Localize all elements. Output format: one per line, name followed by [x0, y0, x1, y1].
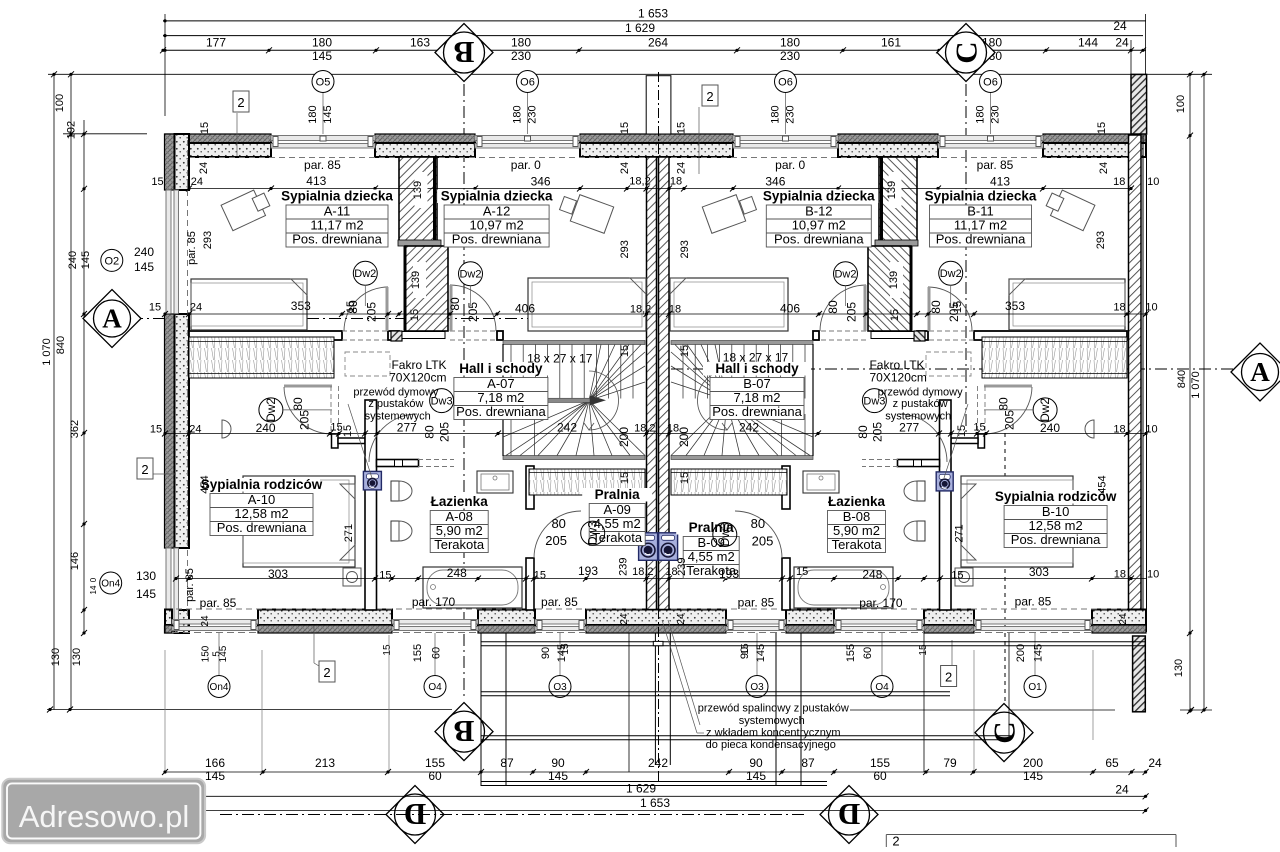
svg-text:10: 10: [1147, 569, 1159, 581]
bathroom north wall + door Dw3: [377, 460, 419, 467]
svg-text:24: 24: [1148, 756, 1162, 770]
right exterior wall: [1129, 135, 1142, 632]
svg-text:155: 155: [845, 644, 857, 662]
svg-text:Pos. drewniana: Pos. drewniana: [456, 404, 546, 419]
svg-text:100: 100: [54, 94, 66, 112]
svg-text:Terakota: Terakota: [832, 537, 883, 552]
svg-text:15: 15: [619, 122, 631, 134]
washer+dryer pair center (blue): [639, 533, 658, 561]
bed A-10: [243, 476, 355, 567]
svg-text:Dw2: Dw2: [940, 268, 962, 280]
section marker A left: [83, 290, 141, 348]
chimney duct wall upper: [399, 157, 437, 241]
svg-text:205: 205: [466, 302, 480, 322]
terrace vertical edges: [480, 633, 482, 786]
svg-text:293: 293: [619, 240, 631, 258]
bottom window markers: [218, 633, 220, 675]
desk+chair A-11: [221, 187, 273, 231]
svg-text:277: 277: [397, 421, 417, 435]
svg-text:242: 242: [739, 421, 759, 435]
svg-text:240: 240: [67, 251, 79, 269]
svg-text:15: 15: [889, 309, 901, 321]
svg-text:87: 87: [500, 756, 514, 770]
room A-12 label: [437, 190, 556, 204]
svg-text:24: 24: [200, 615, 211, 627]
svg-text:205: 205: [545, 533, 567, 548]
svg-text:15: 15: [330, 422, 342, 434]
svg-text:80: 80: [346, 300, 360, 314]
svg-text:406: 406: [780, 302, 800, 316]
svg-text:145: 145: [548, 769, 568, 783]
svg-text:15: 15: [951, 570, 963, 582]
chimney leader bottom: [662, 620, 697, 733]
svg-text:166: 166: [205, 756, 225, 770]
svg-text:5,90 m2: 5,90 m2: [436, 523, 483, 538]
svg-text:230: 230: [990, 105, 1002, 123]
svg-text:70X120cm: 70X120cm: [389, 371, 446, 385]
svg-text:Pos. drewniana: Pos. drewniana: [452, 232, 542, 247]
svg-text:B: B: [454, 714, 475, 749]
svg-text:145: 145: [322, 105, 334, 123]
svg-text:Sypialnia dziecka: Sypialnia dziecka: [441, 189, 553, 204]
section marker C top: [937, 24, 995, 82]
svg-text:145: 145: [80, 251, 92, 269]
svg-text:Pos. drewniana: Pos. drewniana: [217, 520, 307, 535]
svg-text:155: 155: [425, 756, 445, 770]
svg-text:15: 15: [379, 570, 391, 582]
svg-text:24: 24: [189, 424, 201, 436]
svg-text:145: 145: [134, 260, 154, 274]
svg-text:18: 18: [1113, 176, 1125, 188]
svg-text:406: 406: [515, 302, 535, 316]
section line B: [463, 62, 465, 700]
svg-text:Sypialnia dziecka: Sypialnia dziecka: [281, 189, 393, 204]
svg-text:145: 145: [556, 644, 568, 662]
svg-text:On4: On4: [101, 579, 120, 590]
svg-text:4,55 m2: 4,55 m2: [594, 516, 641, 531]
svg-text:15: 15: [973, 422, 985, 434]
svg-text:10: 10: [1145, 424, 1157, 436]
window (bottom wall): [172, 620, 258, 625]
svg-text:11,17 m2: 11,17 m2: [954, 218, 1007, 233]
bottom overall dims: [205, 795, 1146, 797]
svg-text:Dw2: Dw2: [459, 269, 481, 281]
svg-text:80: 80: [423, 425, 437, 439]
svg-text:230: 230: [780, 49, 800, 63]
svg-text:systemowych: systemowych: [885, 411, 951, 423]
window (bottom wall): [726, 620, 786, 625]
svg-text:80: 80: [929, 300, 943, 314]
svg-text:par. 85: par. 85: [977, 158, 1014, 172]
svg-text:z pustaków: z pustaków: [368, 398, 423, 410]
svg-text:180: 180: [770, 105, 782, 123]
svg-text:100: 100: [1175, 95, 1187, 113]
svg-text:C: C: [987, 721, 1022, 743]
left dimension chain: [53, 74, 55, 709]
night table A-10: [222, 420, 231, 438]
svg-text:O6: O6: [983, 76, 998, 88]
svg-text:24: 24: [191, 176, 203, 188]
svg-text:2: 2: [706, 89, 713, 104]
knee wall dashed line inside left wall: [187, 140, 189, 630]
Dw2 door markers: [353, 261, 377, 285]
svg-text:145: 145: [1023, 769, 1043, 783]
svg-text:12,58 m2: 12,58 m2: [1028, 518, 1082, 533]
svg-text:145: 145: [218, 645, 229, 662]
svg-text:80: 80: [291, 397, 305, 411]
svg-text:90: 90: [749, 756, 763, 770]
svg-text:15: 15: [619, 472, 631, 484]
svg-text:293: 293: [202, 231, 214, 249]
svg-text:A-10: A-10: [248, 492, 275, 507]
svg-text:15: 15: [796, 566, 808, 578]
svg-text:130: 130: [50, 648, 62, 666]
svg-text:O2: O2: [104, 255, 119, 267]
svg-text:Dw3: Dw3: [718, 522, 732, 546]
svg-text:15: 15: [151, 176, 163, 188]
svg-text:2: 2: [237, 95, 244, 110]
room B-07 label: [703, 362, 811, 376]
svg-text:par. 0: par. 0: [511, 158, 541, 172]
section marker D bottom-left: [386, 786, 444, 844]
svg-text:18: 18: [670, 176, 682, 188]
svg-text:z pustaków: z pustaków: [893, 398, 948, 410]
svg-text:145: 145: [312, 49, 332, 63]
svg-text:24: 24: [676, 613, 687, 625]
bidet A-08: [391, 521, 399, 541]
svg-text:353: 353: [291, 299, 311, 313]
svg-text:346: 346: [765, 174, 785, 188]
svg-text:10,97 m2: 10,97 m2: [469, 218, 523, 233]
svg-text:130: 130: [136, 569, 156, 583]
room B-08 label: [821, 495, 893, 509]
svg-text:90: 90: [739, 647, 751, 659]
svg-text:205: 205: [845, 302, 859, 322]
window (bottom wall): [834, 620, 924, 625]
svg-text:B-08: B-08: [843, 509, 870, 524]
svg-text:15: 15: [675, 122, 687, 134]
svg-text:180: 180: [780, 36, 800, 50]
svg-text:230: 230: [527, 105, 539, 123]
svg-text:240: 240: [134, 245, 154, 259]
svg-text:On4: On4: [210, 682, 229, 693]
svg-text:15: 15: [679, 345, 691, 357]
svg-text:840: 840: [1176, 370, 1188, 388]
svg-text:A-12: A-12: [483, 204, 510, 219]
svg-text:80: 80: [856, 425, 870, 439]
room A-11 label: [279, 190, 395, 204]
svg-text:145: 145: [1032, 644, 1044, 662]
knee wall dashed line above bottom wall: [176, 608, 646, 610]
interior dim row y=188.5: [189, 188, 1131, 190]
svg-text:Adresowo.pl: Adresowo.pl: [19, 799, 190, 834]
svg-text:230: 230: [785, 105, 797, 123]
svg-text:293: 293: [1095, 231, 1107, 249]
svg-text:145: 145: [136, 587, 156, 601]
section marker D bottom-right: [820, 786, 878, 844]
svg-text:353: 353: [1005, 299, 1025, 313]
chimney duct wall lower: [405, 246, 448, 331]
svg-text:Terakota: Terakota: [434, 537, 485, 552]
svg-text:18 x 27 x 17: 18 x 27 x 17: [723, 351, 789, 365]
svg-text:130: 130: [71, 648, 83, 666]
svg-text:Pralnia: Pralnia: [595, 487, 641, 502]
section marker B top: [435, 24, 493, 82]
svg-text:B-10: B-10: [1042, 504, 1069, 519]
svg-text:1 629: 1 629: [626, 782, 656, 796]
svg-text:155: 155: [870, 756, 890, 770]
svg-text:24: 24: [1115, 783, 1129, 797]
svg-text:271: 271: [343, 524, 355, 542]
exterior dimension chains : top: [163, 20, 1146, 22]
svg-text:139: 139: [888, 271, 900, 289]
svg-text:Dw2: Dw2: [834, 269, 856, 281]
section marker B bottom: [435, 703, 493, 761]
svg-text:18: 18: [1113, 424, 1125, 436]
svg-text:24: 24: [1115, 36, 1129, 50]
svg-text:18 x 27 x 17: 18 x 27 x 17: [527, 352, 593, 366]
room B-11 label: [923, 190, 1039, 204]
svg-text:par. 85: par. 85: [541, 595, 578, 609]
bottom dimension chain: [165, 771, 1146, 773]
knee wall dashed line below top wall: [189, 157, 646, 159]
svg-text:2: 2: [141, 462, 148, 477]
svg-text:180: 180: [512, 105, 524, 123]
svg-text:B-07: B-07: [743, 376, 770, 391]
svg-text:413: 413: [306, 174, 326, 188]
svg-text:par. 85: par. 85: [184, 568, 196, 602]
svg-text:303: 303: [1029, 565, 1049, 579]
svg-text:24: 24: [1098, 162, 1110, 174]
svg-text:24: 24: [619, 613, 630, 625]
top window markers O5/O6: [322, 92, 324, 134]
svg-text:1 653: 1 653: [638, 7, 668, 21]
svg-text:7,18 m2: 7,18 m2: [477, 390, 524, 405]
svg-text:par. 85: par. 85: [738, 596, 775, 610]
room B-12 label: [759, 190, 878, 204]
svg-text:A-07: A-07: [487, 376, 514, 391]
svg-text:90: 90: [551, 756, 565, 770]
svg-text:18: 18: [1113, 302, 1125, 314]
svg-text:248: 248: [447, 566, 467, 580]
svg-text:Pos. drewniana: Pos. drewniana: [1011, 532, 1101, 547]
svg-text:18,2: 18,2: [630, 304, 651, 316]
svg-text:205: 205: [298, 410, 312, 430]
svg-text:1 070: 1 070: [1190, 371, 1202, 399]
svg-text:177: 177: [206, 36, 226, 50]
svg-text:1 653: 1 653: [640, 796, 670, 810]
window (top wall): [271, 136, 375, 141]
svg-text:Sypialnia dziecka: Sypialnia dziecka: [925, 189, 1037, 204]
svg-text:15: 15: [679, 472, 691, 484]
svg-text:par. 170: par. 170: [412, 595, 456, 609]
svg-text:239: 239: [618, 558, 630, 576]
svg-text:B-11: B-11: [967, 204, 994, 219]
left exterior wall: [165, 134, 175, 190]
svg-text:362: 362: [69, 420, 81, 438]
svg-text:A: A: [102, 304, 122, 334]
svg-text:10,97 m2: 10,97 m2: [792, 218, 846, 233]
flue box at duct bottom: [391, 331, 402, 341]
svg-text:80: 80: [996, 397, 1010, 411]
svg-text:840: 840: [55, 336, 67, 354]
svg-text:O6: O6: [520, 76, 535, 88]
wall A-10 | A-08: [365, 400, 377, 610]
section marker A right: [1231, 343, 1280, 401]
svg-text:205: 205: [364, 302, 378, 322]
svg-text:systemowych: systemowych: [365, 411, 431, 423]
bottom right frame box: [886, 834, 1176, 836]
svg-text:24: 24: [619, 162, 631, 174]
svg-text:24: 24: [190, 302, 202, 314]
svg-text:Dw2: Dw2: [1038, 398, 1052, 422]
svg-text:15: 15: [534, 570, 546, 582]
corridor wall / A-10 door area: [284, 385, 332, 388]
svg-text:A-11: A-11: [324, 204, 351, 219]
window jamb projection lines bottom: [164, 650, 166, 771]
svg-text:Sypialnia rodziców: Sypialnia rodziców: [201, 477, 323, 492]
svg-text:O6: O6: [778, 76, 793, 88]
bottom window outer dashed lines: [172, 632, 258, 634]
svg-text:Pos. drewniana: Pos. drewniana: [774, 232, 864, 247]
window (bottom wall): [535, 620, 586, 625]
svg-text:Pos. drewniana: Pos. drewniana: [292, 232, 382, 247]
svg-text:0: 0: [89, 577, 98, 582]
svg-text:1 070: 1 070: [41, 338, 53, 366]
svg-text:200: 200: [617, 427, 631, 447]
svg-text:Dw2: Dw2: [354, 268, 376, 280]
svg-text:144: 144: [1078, 36, 1098, 50]
svg-text:15: 15: [342, 425, 354, 437]
window (top wall): [475, 136, 580, 141]
svg-text:130: 130: [1173, 659, 1185, 677]
room A-10 label: [203, 478, 320, 492]
svg-text:Pos. drewniana: Pos. drewniana: [712, 404, 802, 419]
svg-text:205: 205: [1002, 410, 1016, 430]
svg-text:15: 15: [199, 122, 211, 134]
svg-text:80: 80: [551, 516, 565, 531]
toilet A-08: [391, 481, 399, 501]
svg-text:200: 200: [677, 427, 691, 447]
flue marker A-10 wall (blue): [363, 471, 381, 490]
wall between bedrooms and hall (unit A): [189, 331, 342, 340]
svg-text:1 629: 1 629: [625, 21, 655, 35]
svg-text:15: 15: [409, 309, 421, 321]
svg-text:180: 180: [312, 36, 332, 50]
svg-text:90: 90: [540, 647, 552, 659]
svg-text:139: 139: [886, 181, 898, 199]
svg-text:24: 24: [1118, 613, 1129, 625]
room B-10 label: [997, 490, 1114, 504]
svg-text:18: 18: [669, 304, 681, 316]
svg-text:24: 24: [675, 162, 687, 174]
svg-text:80: 80: [826, 300, 840, 314]
Dw2/Dw3 lower door markers: [259, 398, 283, 422]
bed A-11: [191, 279, 307, 330]
center wall lines below: [654, 633, 656, 765]
stair walking line: [589, 371, 619, 430]
svg-text:240: 240: [1040, 421, 1060, 435]
svg-text:5,90 m2: 5,90 m2: [833, 523, 880, 538]
svg-text:Dw3: Dw3: [586, 521, 600, 545]
svg-text:D: D: [838, 797, 860, 832]
window (bottom wall): [974, 620, 1092, 625]
svg-text:A-08: A-08: [445, 509, 472, 524]
svg-text:Sypialnia dziecka: Sypialnia dziecka: [763, 189, 875, 204]
wardrobe room A-11: [189, 337, 334, 378]
watermark Adresowo.pl: [2, 779, 205, 844]
svg-text:par. 85: par. 85: [200, 596, 237, 610]
svg-text:O4: O4: [428, 682, 442, 693]
svg-text:150: 150: [201, 645, 212, 662]
svg-text:15: 15: [149, 302, 161, 314]
svg-text:z wkładem koncentrycznym: z wkładem koncentrycznym: [706, 727, 841, 739]
svg-text:60: 60: [862, 647, 874, 659]
svg-text:10: 10: [1147, 176, 1159, 188]
svg-text:346: 346: [531, 174, 551, 188]
projection verticals to top dim chain: [164, 14, 166, 116]
svg-text:155: 155: [412, 644, 424, 662]
svg-text:Łazienka: Łazienka: [431, 494, 489, 509]
bathtub A-08: [423, 567, 522, 608]
svg-text:264: 264: [648, 36, 668, 50]
svg-text:303: 303: [268, 567, 288, 581]
section marker C bottom: [975, 704, 1033, 762]
svg-text:277: 277: [899, 421, 919, 435]
duct dims: [413, 262, 426, 298]
svg-text:18,2: 18,2: [634, 423, 655, 435]
roof window dashed (Fakro): [345, 352, 390, 376]
svg-text:2: 2: [945, 670, 952, 685]
svg-text:par. 85: par. 85: [304, 158, 341, 172]
svg-text:Łazienka: Łazienka: [828, 494, 886, 509]
svg-text:12,58 m2: 12,58 m2: [234, 506, 288, 521]
window (top wall): [733, 136, 838, 141]
svg-text:4,55 m2: 4,55 m2: [688, 549, 735, 564]
window (bottom wall): [392, 620, 478, 625]
bottom exterior wall: [165, 610, 172, 626]
window (top wall): [938, 136, 1043, 141]
right pier below: [1133, 636, 1146, 712]
svg-text:192: 192: [66, 121, 78, 139]
center dividing wall: [647, 157, 657, 610]
section line C: [965, 62, 967, 433]
svg-text:par. 170: par. 170: [859, 596, 903, 610]
svg-text:248: 248: [862, 568, 882, 582]
svg-text:15: 15: [1096, 122, 1108, 134]
svg-text:18,2: 18,2: [632, 566, 653, 578]
svg-text:205: 205: [752, 534, 774, 549]
svg-text:A-09: A-09: [603, 502, 630, 517]
svg-text:413: 413: [990, 174, 1010, 188]
svg-text:przewód spalinowy z pustaków: przewód spalinowy z pustaków: [698, 702, 849, 714]
room A-09 label: [582, 488, 652, 502]
stair handrail: [524, 398, 590, 402]
svg-text:18,2: 18,2: [629, 176, 650, 188]
svg-text:80: 80: [751, 516, 765, 531]
room A-08 label: [423, 495, 495, 509]
svg-text:454: 454: [199, 475, 211, 493]
svg-text:A: A: [1250, 357, 1270, 387]
svg-text:146: 146: [69, 552, 81, 570]
svg-text:Dw2: Dw2: [264, 398, 278, 422]
left window labels: [101, 249, 123, 271]
svg-text:139: 139: [410, 271, 422, 289]
svg-text:15: 15: [382, 644, 393, 656]
svg-text:11,17 m2: 11,17 m2: [310, 218, 363, 233]
interior dim row y=314: [165, 313, 1146, 315]
svg-text:242: 242: [648, 756, 668, 770]
